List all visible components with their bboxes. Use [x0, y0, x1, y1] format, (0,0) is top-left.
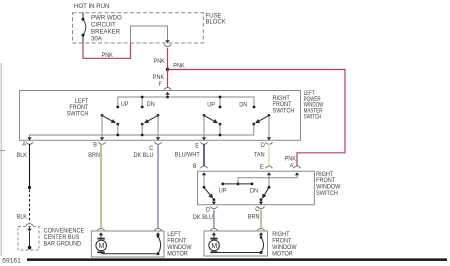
- wire PNK junction to right switch A: [168, 70, 346, 167]
- wire DK BLU to right motor: [213, 210, 215, 228]
- connector BRN left motor: [97, 228, 104, 230]
- wire supply bus: [118, 97, 254, 107]
- motor M2 right front window motor: [209, 232, 220, 253]
- wire DK BLU to left motor: [157, 144, 159, 228]
- svg-text:TAN: TAN: [254, 152, 265, 158]
- svg-text:E: E: [260, 165, 264, 171]
- svg-text:DN: DN: [250, 188, 258, 194]
- svg-text:UP: UP: [207, 102, 215, 108]
- splice F on bus: [166, 96, 169, 99]
- switch arm E to C: [260, 186, 271, 201]
- splice contact center: [237, 183, 240, 186]
- connector DK BLU right motor: [210, 228, 217, 230]
- connector C right switch bottom: [257, 207, 264, 209]
- wire to C connector: [259, 200, 263, 205]
- wire A internal right switch: [238, 175, 297, 184]
- svg-text:F: F: [159, 82, 163, 88]
- label LEFT POWER WINDOW MASTER SWITCH: [304, 91, 325, 121]
- switch arm B to D: [203, 186, 216, 201]
- svg-text:BRN: BRN: [88, 153, 100, 159]
- svg-text:A: A: [22, 142, 26, 148]
- label LEFT FRONT WINDOW MOTOR: [167, 232, 192, 258]
- svg-text:C: C: [149, 146, 154, 152]
- svg-text:LEFT: LEFT: [167, 232, 181, 238]
- connector DK BLU left motor: [154, 228, 161, 230]
- switch arm E (right window): [203, 114, 222, 126]
- bottom border bar: [27, 258, 447, 261]
- wire B internal right switch: [203, 175, 205, 187]
- wire to D connector: [212, 200, 216, 205]
- connector D (master bottom): [265, 137, 272, 144]
- wire E internal: [203, 115, 205, 137]
- svg-text:PNK: PNK: [173, 63, 184, 69]
- splice BLK: [28, 186, 31, 189]
- svg-text:M: M: [212, 243, 218, 250]
- svg-text:BLK: BLK: [17, 153, 28, 159]
- svg-text:RIGHT: RIGHT: [272, 232, 290, 238]
- contact DN: [251, 183, 254, 186]
- connector BRN right motor: [257, 228, 264, 230]
- svg-text:C: C: [255, 207, 260, 213]
- svg-text:UP: UP: [121, 102, 129, 108]
- svg-text:PWR WDO: PWR WDO: [91, 14, 122, 21]
- wire fuse block internal: [131, 26, 168, 43]
- wire right motor internal: [214, 232, 263, 254]
- svg-text:MOTOR: MOTOR: [272, 251, 292, 257]
- svg-text:M: M: [99, 243, 105, 250]
- svg-text:D: D: [261, 143, 265, 149]
- switch arm D (right window): [252, 114, 270, 126]
- svg-text:B: B: [193, 164, 197, 170]
- switch arm B (left window): [101, 114, 120, 126]
- svg-text:WINDOW: WINDOW: [167, 245, 192, 251]
- label FUSE BLOCK: [206, 12, 227, 25]
- riser DN left: [141, 124, 144, 136]
- svg-text:BRN: BRN: [248, 214, 260, 220]
- wire BLU/WHT to right switch B: [203, 144, 205, 167]
- svg-text:WINDOW: WINDOW: [272, 245, 297, 251]
- wire BLK dashed: [29, 190, 31, 223]
- contact DN left: [141, 106, 144, 109]
- svg-text:PNK: PNK: [153, 75, 164, 81]
- contact DN right: [253, 106, 256, 109]
- wire DN1 drop: [141, 96, 144, 107]
- wire UP2 drop: [219, 96, 222, 107]
- wire PNK junction to F: [167, 70, 169, 87]
- right front window switch box: [198, 171, 315, 205]
- svg-text:SWITCH: SWITCH: [304, 114, 322, 121]
- label LEFT FRONT SWITCH: [67, 99, 89, 118]
- wire E internal right switch: [268, 175, 270, 187]
- svg-text:DK BLU: DK BLU: [193, 215, 213, 221]
- wire left motor internal: [101, 232, 160, 255]
- svg-text:D: D: [206, 207, 210, 213]
- fuse block dashed box: [73, 13, 204, 43]
- connector C (master bottom): [154, 137, 161, 144]
- wire C internal: [157, 115, 159, 137]
- circuit breaker: [82, 13, 86, 43]
- svg-text:SWITCH: SWITCH: [316, 191, 338, 197]
- connector B (master bottom): [98, 137, 105, 144]
- wire BRN to right motor: [260, 210, 262, 228]
- wire BRN to left motor: [100, 144, 102, 228]
- connector fuse block output: [164, 40, 171, 46]
- svg-text:BLU/WHT: BLU/WHT: [175, 152, 200, 158]
- svg-text:PNK: PNK: [102, 53, 113, 59]
- contact UP: [221, 183, 224, 186]
- ground wire and terminal: [27, 227, 31, 250]
- svg-text:PNK: PNK: [154, 59, 165, 65]
- circuit breaker label: [91, 14, 122, 42]
- svg-text:A: A: [290, 163, 294, 169]
- svg-text:MOTOR: MOTOR: [167, 251, 187, 257]
- label RIGHT FRONT WINDOW SWITCH: [316, 172, 341, 198]
- wire TAN to right switch E: [268, 144, 270, 167]
- contact UP right: [219, 106, 222, 109]
- wire PNK breaker loop: [83, 43, 131, 59]
- svg-text:BLK: BLK: [17, 214, 28, 220]
- connector B right switch: [200, 166, 207, 168]
- svg-text:SWITCH: SWITCH: [273, 108, 295, 114]
- wire B internal: [101, 115, 103, 137]
- connector D right switch bottom: [210, 207, 217, 209]
- contact UP left: [116, 106, 119, 109]
- svg-text:CONVENIENCE: CONVENIENCE: [44, 228, 85, 234]
- connector ground: [26, 224, 33, 226]
- svg-text:SWITCH: SWITCH: [67, 111, 89, 117]
- connector arrows inside right switch: [202, 172, 299, 175]
- riser UP left: [116, 124, 119, 136]
- svg-text:30A: 30A: [91, 35, 103, 42]
- svg-text:UP: UP: [219, 188, 227, 194]
- svg-text:DN: DN: [147, 102, 155, 108]
- left front window motor box: [91, 231, 164, 257]
- contact line UP DN: [223, 183, 252, 185]
- wire D internal: [268, 115, 270, 137]
- splice PNK junction: [166, 68, 169, 71]
- svg-text:BAR GROUND: BAR GROUND: [44, 241, 82, 247]
- svg-text:PNK: PNK: [285, 156, 296, 162]
- svg-text:FRONT: FRONT: [272, 238, 291, 244]
- switch arm C (left window): [141, 114, 160, 126]
- riser UP right: [219, 124, 222, 136]
- svg-text:FRONT: FRONT: [167, 238, 186, 244]
- connector E (master bottom): [200, 137, 207, 144]
- svg-text:DK BLU: DK BLU: [134, 153, 154, 159]
- left power window master switch box: [20, 91, 301, 141]
- connector A (master bottom): [26, 137, 33, 144]
- svg-text:CENTER BUS: CENTER BUS: [44, 235, 80, 241]
- label CONVENIENCE CENTER BUS BAR GROUND: [44, 228, 85, 247]
- svg-text:BLOCK: BLOCK: [206, 18, 227, 25]
- wire ground bus: [30, 124, 254, 137]
- svg-text:B: B: [93, 142, 97, 148]
- wire PNK fuse to junction: [167, 48, 169, 70]
- label RIGHT FRONT SWITCH: [273, 96, 295, 115]
- svg-text:59161: 59161: [2, 257, 21, 264]
- svg-text:E: E: [195, 143, 199, 149]
- page left border: [0, 63, 5, 256]
- connector A right switch: [293, 166, 300, 168]
- svg-text:HOT IN RUN: HOT IN RUN: [74, 3, 109, 10]
- motor M1 left front window motor: [96, 232, 107, 253]
- svg-text:DN: DN: [239, 102, 247, 108]
- connector F: [164, 88, 171, 98]
- right front window motor box: [204, 231, 268, 256]
- connector E right switch: [265, 166, 272, 168]
- label RIGHT FRONT WINDOW MOTOR: [272, 232, 297, 258]
- wire BLK: [29, 144, 31, 188]
- ground box dashed: [18, 227, 39, 251]
